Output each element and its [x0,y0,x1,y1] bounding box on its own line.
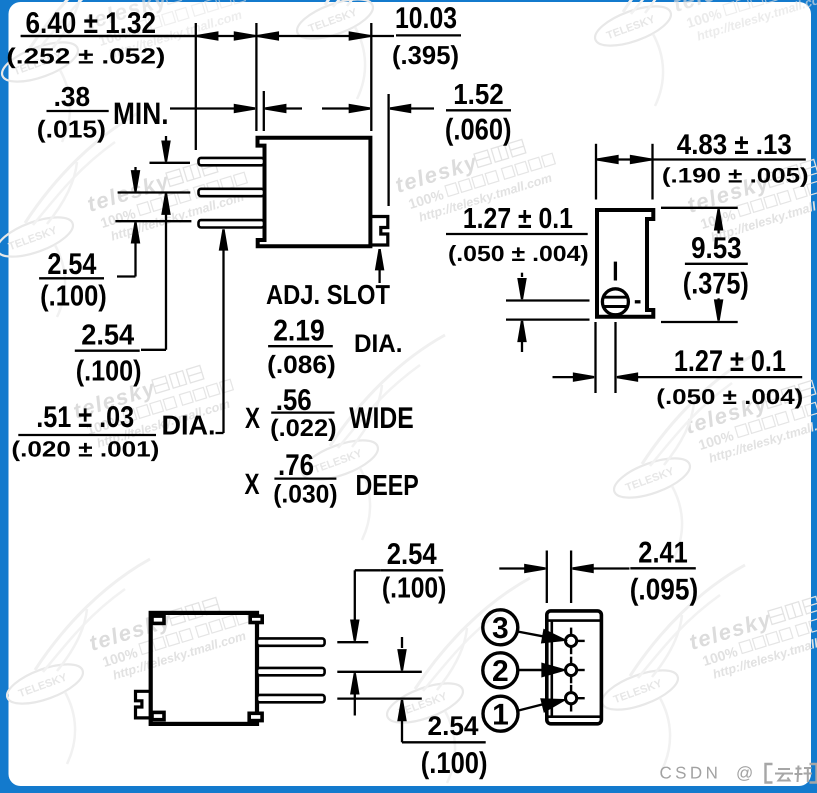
svg-text:(.100): (.100) [382,573,447,605]
svg-text:.38: .38 [54,81,91,112]
fraction bar [21,35,196,37]
terminal pin 3 (top) [566,628,585,655]
svg-text:(.030): (.030) [273,481,337,509]
1.52 dimension: arrow right at x=371.3 with tail [322,105,370,112]
svg-text:DIA.: DIA. [354,330,403,358]
dimension text (.050 +/- .004) (left) [448,241,589,266]
dimension text 1.27 +/- 0.1 (bottom) [674,345,786,378]
2.54 bottom: arrow up at x=402 with leader to label bar [399,700,486,742]
dimension text (.030) [273,481,337,509]
wiper line y=300.5 [506,299,590,301]
svg-text:2.54: 2.54 [81,320,134,352]
dimension text (.086) [267,351,336,379]
1.27 bottom arrow right [553,374,595,381]
dimension text (.395) [392,40,459,70]
lead pin 1 (top) [257,638,325,645]
dimension text 2.41 [638,537,688,570]
fraction bar .51 [18,434,156,436]
dimension text 4.83 +/- .13 [677,129,792,161]
centreline above circle [614,262,617,281]
adjustment slot tab on right side of body [370,217,387,246]
2.54 bottom: arrow down at x=402 [399,637,406,670]
dimension text 2.19 [273,315,325,348]
extension line lead1 centre y=642.2 [337,641,368,643]
watermark ghost logo centre [297,335,445,540]
dimension text (.022) [270,415,337,442]
lead pin 3 (bottom) [257,695,325,702]
watermark text block bottom-right [686,584,817,685]
dimension text (.100) (top) [382,573,447,605]
2.41 extension line right x=571.1 [570,551,572,604]
fraction bar .38/(.015) [47,110,109,112]
svg-text:DIA.: DIA. [162,410,216,441]
dimension text (.015) [37,117,106,144]
9.53 arrow up [715,209,722,233]
lead pin 2 (middle) [199,189,265,196]
svg-text:.51 ± .03: .51 ± .03 [36,401,134,434]
wiper arrow up [519,321,526,352]
fraction bar 9.53 [685,263,748,265]
dimension text .51 +/- .03 [36,401,134,434]
svg-text:(.252 ± .052): (.252 ± .052) [6,44,165,69]
svg-text:(.100): (.100) [40,280,107,312]
CJK bracket right [810,764,817,783]
mounting foot bottom-right [249,713,262,720]
MIN. dimension line at y=110.5 [170,107,255,109]
fraction bar 2.54 #1 [39,277,104,279]
watermark ghost logo top-centre [292,0,440,99]
extension line lead3 centre y=698.6 [337,697,422,699]
svg-text:MIN.: MIN. [113,96,169,131]
arrow left at x=263.8 with tail [265,105,302,112]
svg-text:DEEP: DEEP [356,470,419,502]
arrow down at x=166 to lead1 line [163,136,170,162]
4.83 extension line right x=652.5 [651,144,653,200]
dimension text 1.27 +/- 0.1 (left) [463,203,573,235]
circled terminal number 2 [483,653,518,688]
extension line lead2 centre y=671.8 [337,671,422,673]
terminal pin 2 (middle) [566,657,585,684]
circled terminal number 1 [483,696,518,731]
dimension text .56 [276,384,312,417]
svg-text:9.53: 9.53 [691,232,742,265]
CJK glyph yun [775,769,793,781]
dimension text 9.53 [691,232,742,265]
svg-text:(.050 ± .004): (.050 ± .004) [448,241,589,266]
dimension text (.100) #2 [76,355,142,387]
CJK bracket left [766,764,773,783]
9.53 top extension line [661,207,738,209]
fraction bar 2.41 [630,567,696,569]
watermark text block row3-right [682,368,817,469]
dimension text 2.54 (bottom) [428,711,479,741]
dimension text (.252 +/- .052) [6,44,165,69]
dimension text (.060) [445,114,512,147]
1.27 bottom ext line left x=595.5 [594,322,596,393]
arrow left at x=256.4 [258,33,278,40]
extension line at slot outer edge x=388.6 [387,94,389,206]
dimension text (.050 +/- .004) (bottom) [656,385,803,409]
wiper line y=319.6 [506,318,590,320]
CJK glyph xuan [795,766,813,783]
label DIA. #1 [162,410,216,441]
9.53 arrow down [715,298,722,320]
dimension text (.100) #1 [40,280,107,312]
dimension text 10.03 [395,2,457,35]
mounting foot top-left [152,616,164,623]
lead centre extension line y=162.8 [150,162,191,164]
arrow right at x=256.4 [235,33,255,40]
cover seam top [548,619,600,622]
watermark ghost logo top-right2 [590,0,738,106]
label DIA. #2 [354,330,403,358]
dimension text 1.52 [453,79,504,111]
arrow left at x=195.8 [197,33,217,40]
dimension text (.100) (bottom) [421,747,488,780]
fraction bar 2.54 #2 [75,350,140,352]
svg-text:@: @ [736,764,753,783]
svg-text:1: 1 [492,698,509,731]
dimension text (.020 +/- .001) [11,437,159,462]
label X #2 [245,468,260,501]
svg-text:2.19: 2.19 [273,315,325,348]
arrow up at x=223.5 pointing at lead3 (DIA leader) [216,230,227,434]
extension line at body tab edge x=256.4 [255,23,257,131]
svg-text:X: X [245,468,260,501]
svg-text:2: 2 [492,655,509,688]
cover seam left [550,621,553,717]
svg-text:(.100): (.100) [76,355,142,387]
svg-text:WIDE: WIDE [349,402,414,435]
lead centre extension line y=192.5 [118,191,191,193]
dimension text .38 [54,81,91,112]
arrow down at x=135.5 to lead2 line [132,167,139,191]
svg-text:1.27 ± 0.1: 1.27 ± 0.1 [463,203,573,235]
CSDN watermark text [660,764,754,783]
fraction bar .56 [271,411,334,413]
label ADJ. SLOT [266,279,390,310]
leader from 2 to pin 2 [518,664,564,676]
svg-text:(.022): (.022) [270,415,337,442]
arrow right at x=256.4 (MIN.) [235,105,255,112]
adjustment slot tab on left side [136,691,151,718]
trimmer body (top-left side view) [258,138,371,247]
watermark text block bottom-left [86,585,255,686]
svg-text:CSDN: CSDN [660,764,722,783]
arrow up at x=166 from lead2 line, stem to 2.54 label #2 [141,194,169,350]
arrow up at x=379.6 pointing at adj slot [376,249,383,283]
1.27 bottom arrow left and label bar [617,374,802,381]
2.54 top: arrow down at x=354.8 with leader to label [351,570,380,640]
2.41 arrow right at x=546.8 [499,565,545,572]
1.27 bottom ext line right x=615.5 [614,322,616,393]
dimension line 6.40 / 10.03 at y=36 [21,35,394,37]
lead pin 3 (bottom) [199,220,265,227]
lead pin 1 (top) [199,158,265,165]
svg-text:(.060): (.060) [445,114,512,147]
watermark ghost logo bottom-left [2,559,150,764]
wiper arrow down [519,273,526,299]
svg-text:2.41: 2.41 [638,537,688,570]
lead pin 2 (middle) [257,668,325,675]
extension line at lead left end x=195.8 [195,23,197,150]
svg-text:ADJ. SLOT: ADJ. SLOT [266,279,390,310]
extension line at body inset edge x=263.8 [263,91,265,131]
trimmer body (side view, lower-right) [547,611,602,724]
svg-text:(.086): (.086) [267,351,336,379]
screw slot circle [602,289,628,315]
svg-text:(.050 ± .004): (.050 ± .004) [656,385,803,409]
dimension text .76 [278,449,314,482]
svg-text:10.03: 10.03 [395,2,457,35]
arrow up at x=135.5 from lead3 line, leader to 2.54 label #1 [117,222,139,276]
watermark ghost logo left-edge [0,112,140,317]
fraction bar 1.27 left [446,233,588,235]
watermark ghost logo right-mid [609,353,757,558]
fraction bar 10.03 [396,34,461,36]
label X #1 [245,402,260,435]
svg-text:2.54: 2.54 [47,248,96,281]
svg-text:(.100): (.100) [421,747,488,780]
svg-text:(.395): (.395) [392,40,459,70]
arrow right at x=371.3 [350,33,370,40]
extension line at body right edge x=371.3 [370,23,372,131]
svg-text:4.83 ± .13: 4.83 ± .13 [677,129,792,161]
watermark text block mid-centre [392,127,561,228]
trimmer body (bottom view, lower-left) [151,613,257,724]
circled terminal number 3 [483,610,518,645]
watermark ghost logo bottom-centre [382,578,530,783]
label WIDE [349,402,414,435]
dimension text 6.40 +/- 1.32 [26,7,157,40]
svg-text:(.190 ± .005): (.190 ± .005) [662,165,809,188]
svg-text:(.375): (.375) [683,268,749,301]
watermark text block top-left [82,0,251,65]
fraction bar 1.52 [446,109,511,111]
label MIN. [113,96,169,131]
terminal pin 1 (bottom) [566,685,585,712]
dimension text (.095) [630,574,699,607]
svg-text:3: 3 [492,612,509,645]
leader from 3 to pin 3 [518,630,566,645]
centreline dash right of circle [635,300,641,303]
fraction bar 2.19 [268,345,333,347]
label DEEP [356,470,419,502]
svg-text:2.54: 2.54 [387,538,437,571]
svg-text:2.54: 2.54 [428,711,479,741]
2.41 arrow left at x=571.1 with tail to label [573,565,630,572]
svg-text:.76: .76 [278,449,314,482]
fraction bar 2.54 top [380,569,443,571]
fraction bar .76 [274,477,336,479]
dimension text (.375) [683,268,749,301]
screw slot chord lines [604,297,628,306]
dimension text (.190 +/- .005) [662,165,809,188]
svg-text:X: X [245,402,260,435]
svg-text:(.020 ± .001): (.020 ± .001) [11,437,159,462]
mounting foot top-right [250,616,262,622]
watermark text block top-right [670,0,817,47]
svg-text:(.095): (.095) [630,574,699,607]
lead centre extension line y=221.2 [115,220,191,222]
2.41 extension line left x=546.8 [546,551,548,604]
svg-text:1.27 ± 0.1: 1.27 ± 0.1 [674,345,786,378]
watermark ghost logo bottom-right [597,565,745,770]
dimension text 2.54 #1 [47,248,96,281]
watermark text block row3-left [70,353,239,454]
watermark ghost logo top-left [0,0,145,142]
4.83 extension line left x=596 [595,144,597,200]
mounting foot bottom-left [152,712,164,719]
dimension text 2.54 (top) [387,538,437,571]
trimmer body (front view, right side) [597,210,653,317]
4.83 dimension line with outward arrows [597,156,806,163]
9.53 bottom extension line [661,321,738,323]
watermark text block mid-left [84,146,253,247]
svg-text:(.015): (.015) [37,117,106,144]
svg-text:1.52: 1.52 [453,79,504,111]
1.52 dimension: arrow left at x=388.6 with tail [390,105,434,112]
dimension text 2.54 #2 [81,320,134,352]
cover seam bottom [548,715,600,718]
watermark text block mid-right [684,147,817,248]
2.54 top: arrow up at x=354.8 [351,673,358,715]
leader from 1 to pin 1 [519,694,565,711]
